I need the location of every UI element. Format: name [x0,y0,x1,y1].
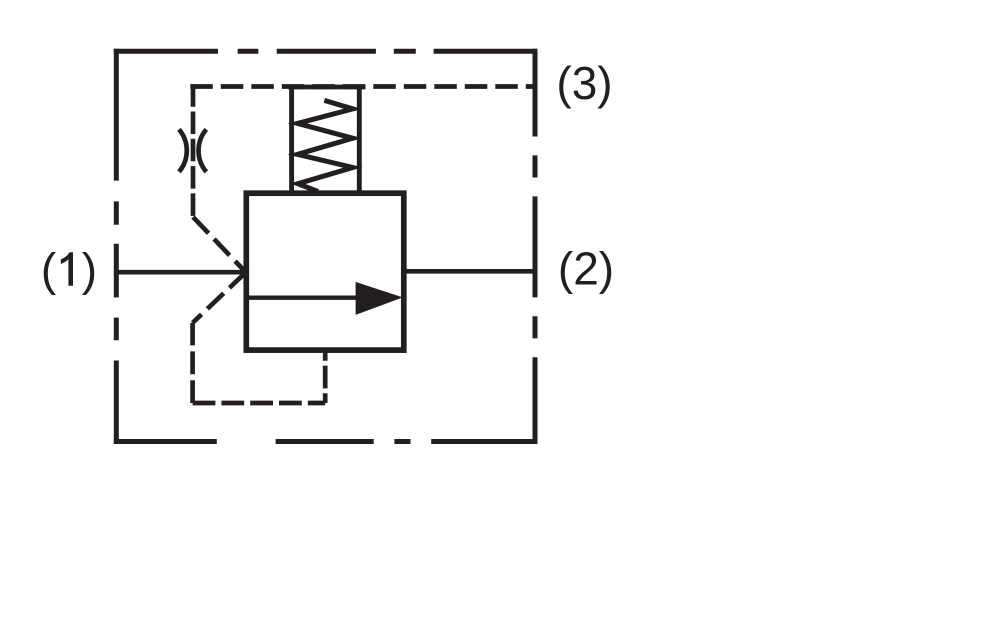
pilot line diagonal upper [193,217,246,272]
flow arrow head [356,282,403,315]
svg-text:(2): (2) [558,242,614,294]
enclosure border top (dash-dot) [114,49,538,54]
wire port (1) solid line [116,270,247,275]
spring cage right wall [357,87,362,193]
pilot line vertical through orifice [191,84,196,217]
wire port (2) solid line [404,269,536,274]
orifice R1 right arc [199,129,207,171]
spring cage left wall [289,87,294,193]
drain line diagonal lower [193,272,246,323]
valve body V1 [246,193,403,350]
svg-text:(3): (3) [556,57,612,109]
drain line vertical left [190,323,195,403]
pilot line top horizontal to port 3 [190,84,535,89]
drain line bottom horizontal [193,401,326,406]
flow arrow shaft [249,296,362,300]
port label (1) digit [61,252,73,285]
spring cage top wall [288,85,365,90]
enclosure border bottom (dash-dot) [114,439,538,444]
spring S1 zigzag [298,100,353,191]
orifice R1 left arc [179,129,187,171]
enclosure border left (dash-dot) [114,49,119,444]
enclosure border right (dash-dot) [533,49,538,444]
drain line vertical to valve bottom [323,353,328,404]
